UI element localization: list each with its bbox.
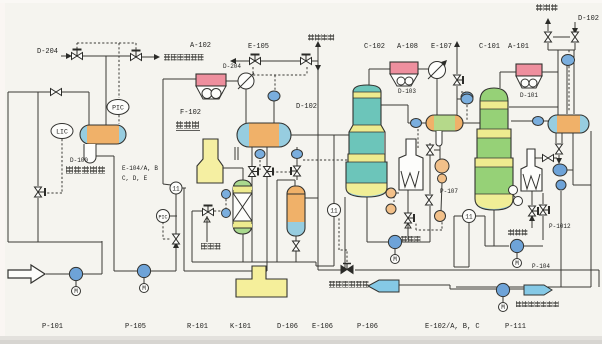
instrument flow element 11 C-101	[463, 210, 476, 223]
pump P-101	[69, 267, 82, 295]
wire D-204 inlet line	[61, 55, 70, 57]
wire right boot chain	[555, 133, 557, 143]
exchanger E-107 circle	[428, 60, 447, 79]
svg-text:F-102: F-102	[180, 109, 201, 117]
valve fuel control	[173, 234, 180, 244]
vessel D-102 flash drum	[237, 123, 291, 147]
wire C-101 feed	[457, 122, 480, 124]
wire D-106 drain	[295, 236, 297, 241]
svg-text:D-100: D-100	[70, 157, 88, 164]
svg-text:11: 11	[172, 186, 180, 193]
scan shadow band	[0, 336, 602, 344]
instrument bubble D-103 inlet	[411, 119, 422, 128]
instrument bubble E-107	[461, 92, 473, 102]
svg-text:D-204: D-204	[223, 63, 241, 70]
instrument circles E-102	[509, 186, 518, 195]
wire reflux line with inst	[381, 104, 408, 106]
wire E-102 fuel valves	[531, 218, 533, 228]
svg-text:D-204: D-204	[37, 48, 58, 56]
wire stripped oil product line	[398, 284, 450, 286]
pump P-106	[388, 235, 401, 263]
wire feed line P-101	[46, 273, 102, 275]
svg-text:P-105: P-105	[125, 323, 146, 331]
svg-text:D-102: D-102	[578, 15, 599, 23]
wire reflux drum right to bottom	[572, 170, 574, 185]
wire pressure tap on D-102	[273, 101, 275, 123]
wire D-102 liquid lines	[251, 147, 253, 166]
wire PIC2 connections	[168, 215, 177, 217]
valve E-105 line left	[250, 55, 261, 65]
svg-text:D-102: D-102	[296, 103, 317, 111]
wire C-102 overhead	[368, 69, 370, 86]
wire flow element to fuel header	[182, 187, 186, 189]
svg-text:A-101: A-101	[508, 43, 529, 51]
svg-text:11: 11	[330, 208, 338, 215]
wire A-102 to E-105	[226, 80, 238, 82]
valve R-101 inlet control	[203, 206, 214, 216]
wire D-106 top lines	[294, 180, 296, 186]
vessel D-100 raw oil surge drum	[80, 125, 126, 163]
wire valve1 to valve2	[83, 55, 130, 57]
valve E-102 fuel	[529, 206, 539, 216]
air cooler A-108	[390, 62, 418, 86]
valve D-102 boot drain	[291, 166, 301, 176]
reboiler E-106	[399, 139, 423, 190]
valve control fuel gas net 2	[131, 51, 142, 61]
svg-text:K-101: K-101	[230, 323, 251, 331]
pump bubble P-111 suction	[553, 164, 567, 176]
wire C-102 bottom left	[344, 197, 346, 270]
vessel D-106	[287, 186, 305, 236]
pump P-104	[510, 239, 523, 267]
wire E-105 down to D-102	[245, 89, 247, 123]
svg-text:PIC: PIC	[158, 215, 167, 221]
label 精制或重整进料泵	[516, 301, 559, 307]
vessel D-103 reflux drum	[426, 115, 463, 146]
exchanger E-105 circle	[238, 73, 254, 89]
svg-text:D-103: D-103	[398, 88, 416, 95]
wire orifice feeder	[162, 79, 164, 184]
instrument bubble C-101 feed	[461, 94, 473, 104]
svg-text:C-102: C-102	[364, 43, 385, 51]
column C-102	[346, 85, 387, 198]
instrument flow element 11 (furnace)	[170, 182, 182, 194]
label 去燃料气 top	[308, 34, 334, 41]
valve E-107 pressure	[454, 75, 464, 85]
svg-text:P-106: P-106	[357, 323, 378, 331]
svg-text:C, D, E: C, D, E	[122, 175, 148, 182]
wire furnace bottom left line	[182, 187, 184, 189]
vessel D-102 right drum	[548, 115, 589, 133]
label 燃料气 furnace	[201, 243, 220, 250]
wire circle11 right loop	[454, 215, 463, 217]
valve D-102 liquid 2	[264, 167, 274, 177]
svg-text:D-106: D-106	[277, 323, 298, 331]
valve offgas left	[545, 32, 552, 42]
wire D-102 to C-102 feed	[303, 159, 348, 161]
label 拔头油出装置	[329, 281, 369, 288]
svg-text:PIC: PIC	[112, 105, 124, 112]
feed inlet arrow	[8, 265, 45, 283]
valve control D-204 line 1	[72, 50, 83, 60]
valve bottoms product	[341, 264, 353, 274]
wire feed top line to D-100	[8, 91, 89, 93]
svg-text:R-101: R-101	[187, 323, 208, 331]
wire furnace to R-101	[222, 167, 243, 169]
product arrow to reformer	[524, 285, 552, 295]
svg-text:LIC: LIC	[56, 129, 68, 136]
svg-text:E-104/A, B: E-104/A, B	[122, 165, 158, 172]
valve D-106 drain	[293, 241, 300, 251]
instrument bubble D-102 boot	[255, 150, 265, 159]
label 加热炉	[176, 121, 200, 131]
reactor R-101	[233, 180, 252, 234]
valve P-104 discharge	[540, 205, 550, 215]
label 去瓦斯	[536, 4, 558, 11]
pump P-105	[137, 264, 150, 292]
instrument LIC	[51, 124, 73, 139]
pump P-111	[496, 283, 509, 311]
valve P-106 discharge double	[426, 195, 433, 205]
column C-101	[475, 88, 513, 211]
valve E-106 riser	[427, 145, 434, 155]
svg-text:P-104: P-104	[532, 263, 550, 270]
wire E-106 fuel	[407, 224, 409, 240]
valve right boot	[556, 144, 563, 154]
wire D-100 boot to P-105	[89, 156, 91, 160]
wire offgas valves	[547, 20, 549, 31]
svg-text:E-107: E-107	[431, 43, 452, 51]
instrument bubble offgas	[562, 55, 575, 66]
valve E-105 line right	[301, 55, 312, 65]
wire header y48	[456, 44, 458, 74]
wire D-103 boot chain	[417, 129, 419, 148]
instrument bubbles R-101	[222, 190, 231, 199]
reboiler E-102	[521, 149, 542, 191]
air cooler A-101	[516, 64, 542, 88]
svg-text:P-1012: P-1012	[549, 223, 571, 230]
instrument circles P-107 chain	[435, 159, 449, 173]
wire D-102 boot drain to D-106	[296, 147, 298, 166]
wire dashes split range	[253, 67, 307, 90]
wire long bottoms line	[318, 269, 343, 271]
valve D-102 liquid 1	[249, 167, 259, 177]
instrument circles E-106 left	[386, 188, 396, 198]
svg-text:E-106: E-106	[312, 323, 333, 331]
instrument PIC top	[107, 100, 129, 115]
wire valve2 outlet arrow	[142, 56, 156, 58]
svg-text:E-102/A, B, C: E-102/A, B, C	[425, 323, 480, 331]
svg-text:P-101: P-101	[42, 323, 63, 331]
wire LIC signal	[46, 139, 62, 193]
svg-text:D-101: D-101	[520, 92, 538, 99]
wire P-105 discharge riser	[175, 245, 177, 271]
wire P-104	[493, 210, 495, 246]
wire C-102 bottoms to P-106	[366, 197, 368, 242]
svg-text:E-105: E-105	[248, 43, 269, 51]
svg-text:C-101: C-101	[479, 43, 500, 51]
wire C-101 overhead	[499, 72, 501, 88]
valve LIC control	[35, 187, 46, 197]
valve manual D-100 inlet	[51, 89, 62, 96]
wire right drum inlet lines	[557, 50, 559, 115]
wire E-106 left stubs	[387, 192, 399, 194]
instrument PIC furnace	[157, 210, 170, 223]
wire control signal dashes	[77, 43, 136, 124]
svg-text:A-102: A-102	[190, 42, 211, 50]
compressor K-101	[236, 266, 287, 297]
wire C-101 reflux ellipse line	[511, 120, 548, 122]
svg-text:11: 11	[465, 214, 473, 221]
product arrow stripped oil	[368, 280, 399, 292]
wire vapor riser from D-100	[105, 56, 107, 125]
wire R-101 valve dashes	[214, 199, 226, 211]
wire E-105 line to D-204	[234, 60, 249, 62]
air cooler A-102	[196, 74, 226, 99]
svg-text:A-108: A-108	[397, 43, 418, 51]
label 燃料气 E-102	[508, 229, 527, 236]
valve E-106 fuel control	[405, 213, 415, 223]
svg-text:P-111: P-111	[505, 323, 526, 331]
wire E-102 circles stubs	[513, 195, 516, 198]
instrument bubble C-101 reflux	[533, 117, 544, 126]
valve offgas right	[572, 32, 579, 42]
instrument pressure bubble D-102	[268, 91, 280, 101]
wire bottom return header	[456, 286, 591, 288]
valve right lateral	[543, 155, 554, 162]
label 去燃料气管网	[164, 54, 204, 61]
instrument flow element 11 C-102	[328, 204, 341, 217]
svg-text:P-107: P-107	[440, 188, 458, 195]
label 原料中间罐	[66, 166, 105, 174]
furnace F-102	[197, 139, 223, 183]
label 燃料气 E-106	[401, 236, 420, 243]
